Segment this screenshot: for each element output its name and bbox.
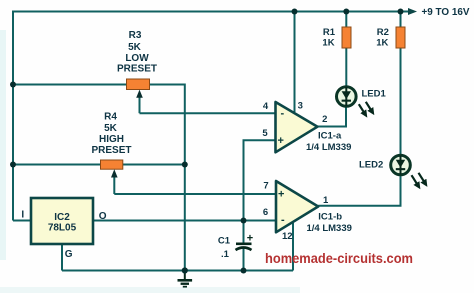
svg-text:+: + [278, 189, 284, 201]
wire: R2 bottom lead to LED2 [400, 48, 402, 155]
svg-text:-: - [281, 108, 285, 120]
svg-text:+: + [247, 232, 253, 244]
node: R3 labels [117, 30, 157, 74]
node: R1 labels [322, 27, 335, 49]
svg-text:homemade-circuits.com: homemade-circuits.com [265, 250, 413, 266]
svg-text:LOW: LOW [125, 53, 149, 64]
svg-text:+: + [278, 135, 284, 147]
svg-text:1K: 1K [376, 37, 388, 48]
wire: R4 wiper to IC1-b pin 7 [114, 193, 276, 195]
svg-text:-: - [281, 214, 285, 226]
node: R4 labels [91, 112, 131, 157]
wire: R3 left lead [13, 84, 127, 86]
node: IC1-b pin labels [263, 181, 329, 243]
wire: LED2 cathode to IC1-b output pin 1 [318, 176, 400, 206]
svg-text:12: 12 [282, 231, 293, 242]
op-amp U2 IC1-b [276, 181, 318, 232]
IC U3 IC2 78L05 regulator [31, 198, 93, 244]
node: IC1-a pin labels [262, 100, 327, 139]
node: junction dots [10, 9, 404, 274]
svg-text:I: I [21, 209, 24, 220]
wire: R3 wiper to IC1-a pin 4 [140, 112, 276, 114]
ground [178, 271, 193, 288]
svg-text:3: 3 [298, 100, 303, 111]
svg-text:4: 4 [263, 101, 269, 112]
svg-text:1: 1 [323, 195, 329, 206]
wire: R4 right lead [123, 164, 185, 166]
resistor R3 (5K LOW PRESET) [127, 79, 150, 113]
svg-text:IC1-a: IC1-a [318, 130, 342, 141]
svg-text:5K: 5K [104, 123, 118, 134]
svg-text:1/4 LM339: 1/4 LM339 [307, 223, 352, 234]
wire: R4 left lead [13, 164, 101, 166]
svg-text:G: G [65, 249, 73, 260]
node: scan haze left edge [0, 30, 6, 260]
wire: R1 top lead [345, 12, 347, 28]
capacitor C1 .1 [236, 232, 254, 250]
svg-text:PRESET: PRESET [91, 145, 131, 156]
resistor R4 (5K HIGH PRESET) [101, 160, 123, 194]
svg-text:IC2: IC2 [54, 212, 70, 223]
node: supply arrow [408, 8, 417, 15]
svg-text:6: 6 [263, 207, 268, 218]
resistor R1 1K [342, 27, 351, 48]
node: R2 labels [376, 27, 389, 49]
svg-text:LED2: LED2 [359, 160, 383, 171]
LED LED1 [337, 87, 372, 114]
svg-text:5K: 5K [128, 42, 142, 53]
wire: 5V reference to IC1-a pin 5 [244, 140, 276, 242]
svg-text:R3: R3 [129, 30, 142, 41]
node: scan haze bottom edge [0, 287, 300, 293]
wire: IC2 input [13, 220, 31, 222]
svg-text:5: 5 [262, 128, 268, 139]
node: C1 labels [218, 236, 231, 260]
LED LED2 [391, 155, 425, 185]
svg-text:1K: 1K [322, 37, 334, 48]
svg-text:+9 TO 16V: +9 TO 16V [422, 6, 470, 18]
svg-text:C1: C1 [218, 236, 231, 247]
svg-text:R4: R4 [104, 112, 117, 123]
wire: R3 right lead down to ground rail [150, 85, 185, 271]
wire: R1 bottom lead to LED1 [345, 48, 347, 87]
op-amp U1 IC1-a [276, 102, 318, 152]
svg-text:LED1: LED1 [362, 88, 387, 99]
svg-text:O: O [99, 211, 107, 222]
svg-text:R1: R1 [323, 27, 336, 38]
wire: IC2 G lead [61, 244, 63, 271]
wire: ground rail [62, 270, 293, 272]
svg-text:PRESET: PRESET [117, 63, 157, 74]
svg-text:2: 2 [322, 114, 327, 125]
svg-text:1/4 LM339: 1/4 LM339 [306, 142, 351, 153]
svg-text:.1: .1 [221, 249, 230, 260]
wire: R2 top lead [400, 12, 402, 28]
wire: C1 lower lead [243, 249, 245, 271]
svg-text:7: 7 [263, 181, 268, 192]
svg-text:78L05: 78L05 [48, 223, 77, 234]
svg-text:IC1-b: IC1-b [318, 211, 342, 222]
wire: +V top rail and left vertical [13, 12, 408, 221]
wire: LED1 cathode to IC1-a output pin 2 [318, 106, 347, 127]
wire: IC1-b pin 12 to ground rail [292, 223, 294, 271]
wire: IC2 output to IC1-b pin 6 [93, 220, 276, 222]
wire: IC1-a pin 3 to +V rail [294, 12, 296, 113]
svg-text:R2: R2 [377, 27, 389, 38]
svg-text:HIGH: HIGH [99, 134, 124, 145]
resistor R2 1K [396, 27, 405, 48]
